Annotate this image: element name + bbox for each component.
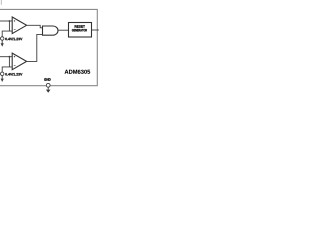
- value label 0.4V/1.23V for V1: [5, 38, 22, 41]
- ground arrow below GND pin: [47, 87, 49, 90]
- IC outline box ADM6305 (top, right, bottom borders; left side cropped): [0, 9, 97, 85]
- node junction J1 on VCC1 wire: [9, 20, 11, 22]
- comparator U1: [12, 17, 26, 34]
- ground symbol under V1: [1, 40, 3, 43]
- wire VCC2 input to comparator U2 + input: [0, 56, 12, 58]
- label GENERATOR (line 2): [72, 29, 87, 31]
- wire U2 output to AND gate G1 bottom input: [27, 34, 43, 61]
- AND gate G1: [43, 26, 59, 35]
- ground symbol under V2: [1, 76, 3, 79]
- cropped artifact line top-left: [0, 0, 2, 5]
- pin - marker U2: [14, 64, 16, 66]
- wire G1 output to reset generator: [58, 29, 69, 31]
- wire J1 down to U1 - input rail: [8, 21, 10, 31]
- node junction J2 on VCC2 wire: [9, 56, 11, 58]
- comparator U2: [12, 53, 26, 70]
- wire J2 down to U2 - input rail: [8, 57, 10, 67]
- pin - marker U1: [14, 29, 16, 31]
- pin + marker U1: [14, 20, 15, 22]
- part label ADM6305: [65, 70, 91, 74]
- pin + marker U2: [14, 56, 15, 58]
- reference source V2 circle: [0, 72, 4, 76]
- GND pin label: [44, 78, 51, 81]
- label RESET (line 1): [75, 25, 85, 27]
- value label 0.4V/1.23V for V2: [5, 73, 22, 76]
- wire VCC1 input to comparator U1 + input: [0, 20, 12, 22]
- wire U1 output to AND gate G1 top input: [27, 25, 43, 28]
- reference source V1 circle: [0, 37, 4, 41]
- wire reference V1 to comparator U1 - input: [2, 31, 12, 37]
- reset generator block: [69, 23, 92, 38]
- GND pin circle on bottom border: [46, 83, 50, 87]
- wire reset generator output crossing right border (RESET pin): [92, 29, 99, 31]
- wire reference V2 to comparator U2 - input: [2, 67, 12, 72]
